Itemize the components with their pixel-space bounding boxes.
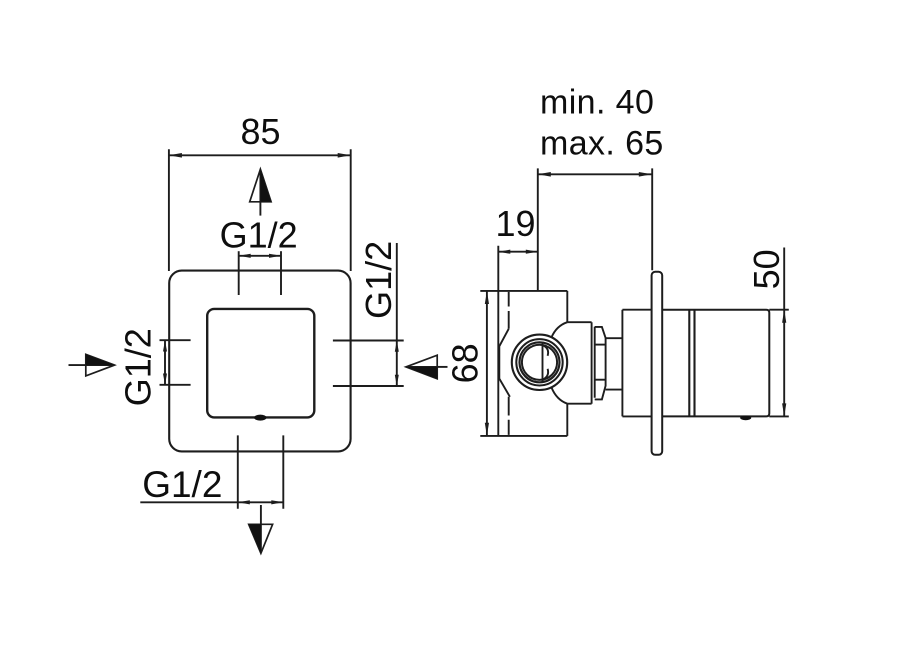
flow arrow up shaft inner (259, 171, 261, 202)
dome shoulder top curve (552, 322, 568, 337)
flow arrow right shaft (437, 366, 447, 368)
port circle outer (512, 335, 567, 390)
right port tick upper (333, 340, 404, 342)
chord hook bottom (543, 369, 548, 380)
top port extension line right (280, 251, 282, 295)
bottom leader line (140, 501, 238, 503)
svg-text:max. 65: max. 65 (540, 125, 664, 163)
port circle inner (522, 345, 557, 380)
port circle third (520, 342, 560, 382)
body front tangent edge lower dashes (508, 397, 510, 435)
dim 19 line (498, 251, 538, 253)
right port leader line (396, 243, 398, 386)
svg-text:G1/2: G1/2 (118, 328, 159, 406)
dome shoulder bottom curve (552, 388, 568, 404)
dim 50 arrow up (782, 310, 786, 323)
dim 85 line (169, 154, 351, 156)
dim 68 arrow up (485, 291, 489, 304)
port circle second (516, 339, 562, 385)
dim 19 arrow left (498, 250, 510, 254)
valve body bottom edge + 68 extension (480, 435, 567, 437)
svg-text:19: 19 (495, 203, 535, 244)
left port dim arrow down (163, 374, 167, 385)
dim min/max line (538, 173, 652, 175)
dim 50 extension bottom (769, 415, 789, 417)
right port dim arrow down (395, 375, 399, 386)
bottom port tick left (237, 435, 239, 508)
extension line plate face (651, 168, 653, 270)
dome face outer line (591, 322, 593, 404)
handle flange bottom edge (622, 415, 652, 417)
dome top edge (567, 321, 591, 323)
svg-text:G1/2: G1/2 (358, 241, 399, 319)
dim 85 extension line right (350, 149, 352, 271)
dim 50 arrow down (782, 403, 786, 416)
dim G1/2 top arrow right (269, 254, 281, 258)
flow arrow up shaft (259, 172, 261, 216)
extension line mounting face (537, 168, 539, 291)
dim 85 arrow right (338, 153, 351, 158)
handle hole square (207, 309, 314, 418)
handle body outline (662, 310, 769, 417)
valve body top edge + 68 extension (480, 290, 567, 292)
dim 19 arrow right (526, 250, 538, 254)
valve body back face + 19 extension (497, 246, 499, 436)
hex boss profile (499, 329, 510, 397)
dim min/max arrow left (538, 172, 551, 177)
body front tangent edge upper dashes (508, 292, 510, 329)
nut outline (595, 327, 606, 400)
handle indicator dot (740, 416, 751, 421)
bottom port tick right (282, 435, 284, 508)
flow arrow left outline (86, 354, 115, 376)
right port tick lower (333, 385, 404, 387)
top port extension line left (238, 251, 240, 295)
right port dim arrow up (395, 341, 399, 352)
flow arrow up filled half (260, 169, 271, 202)
svg-text:50: 50 (746, 249, 787, 289)
flow arrow down shaft (260, 505, 262, 526)
valve body right edge upper segment (566, 291, 568, 322)
svg-text:G1/2: G1/2 (142, 464, 222, 505)
nut facet line upper (595, 344, 606, 346)
dome bottom edge (567, 403, 591, 405)
valve body right edge lower segment (566, 404, 568, 436)
dim G1/2 top line (239, 255, 281, 257)
bottom dim arrow right (271, 500, 283, 504)
dim 50 line (783, 248, 785, 417)
flow arrow right shaft inner (408, 366, 437, 368)
flow arrow right outline (406, 355, 437, 379)
bottom dim line (238, 501, 283, 503)
chord hook top (543, 345, 548, 356)
escutcheon plate (652, 272, 663, 455)
dim 68 line (486, 291, 488, 436)
flow arrow down filled half (249, 524, 261, 553)
dim 85 arrow left (169, 153, 182, 158)
dim min/max arrow right (639, 172, 652, 177)
flow arrow up outline (250, 169, 271, 202)
nut facet line lower (595, 379, 606, 381)
stem top line (606, 337, 623, 339)
flow arrow left filled half (86, 354, 115, 365)
svg-text:G1/2: G1/2 (220, 214, 298, 255)
left port dim line (164, 340, 166, 385)
handle joint line right (693, 310, 695, 417)
svg-text:min. 40: min. 40 (540, 84, 654, 122)
dim 50 extension top (769, 309, 789, 311)
stem bottom line (606, 389, 623, 391)
left port dim arrow up (163, 340, 167, 351)
svg-text:85: 85 (240, 111, 280, 152)
flow arrow down shaft inner (260, 524, 262, 551)
flow arrow left shaft (69, 364, 89, 366)
bottom dim arrow left (238, 500, 250, 504)
handle flange left edge (621, 310, 623, 417)
left port tick upper (160, 339, 191, 341)
faceplate outline (169, 271, 350, 452)
dim 85 extension line left (168, 149, 170, 271)
flow arrow right filled half (406, 367, 437, 379)
flow arrow down outline (249, 524, 273, 553)
dim G1/2 top arrow left (239, 254, 251, 258)
cartridge chord (542, 343, 544, 383)
handle flange top edge (622, 309, 652, 311)
left port tick lower (160, 384, 191, 386)
dome face inner line (594, 327, 596, 398)
handle hole indicator dot (254, 415, 266, 421)
flow arrow left shaft inner (86, 364, 113, 366)
svg-text:68: 68 (444, 343, 485, 383)
handle joint line left (688, 310, 690, 417)
dim 68 arrow down (485, 423, 489, 436)
